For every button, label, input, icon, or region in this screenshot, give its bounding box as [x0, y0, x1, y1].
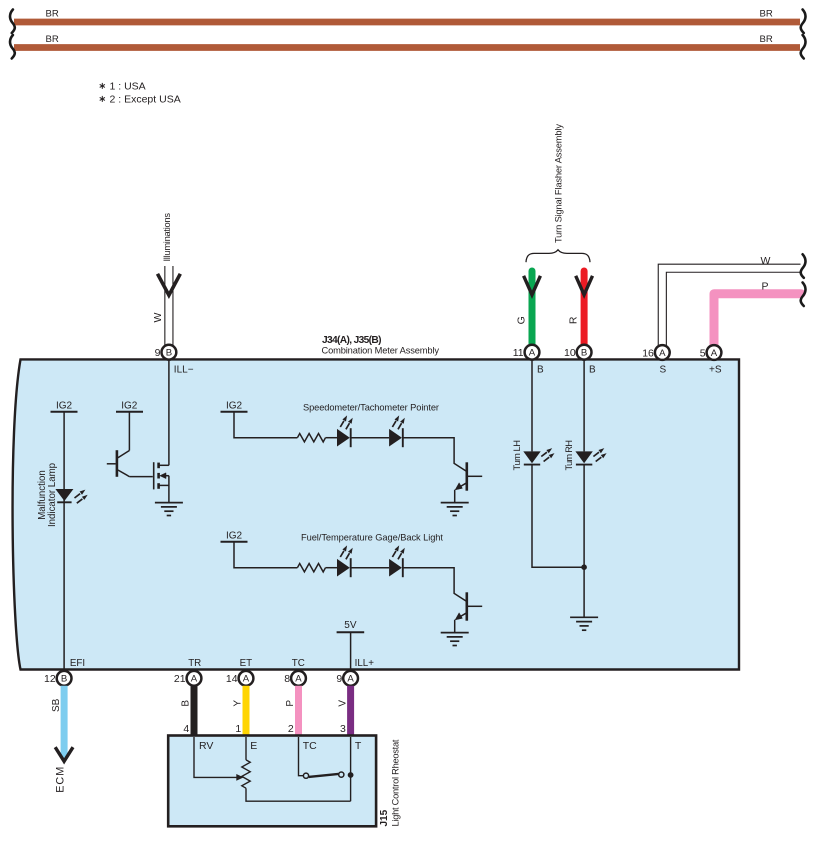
resistor R2 [297, 564, 325, 572]
wire MOSFET source to ground [168, 476, 170, 503]
ground (Q2 emitter) [441, 503, 469, 516]
wire LED4 to transistor Q3 [403, 568, 466, 601]
svg-text:Turn Signal Flasher Assembly: Turn Signal Flasher Assembly [553, 124, 563, 243]
svg-text:1: 1 [235, 723, 241, 735]
svg-text:IG2: IG2 [56, 400, 73, 411]
svg-text:16: 16 [642, 347, 654, 359]
svg-text:A: A [529, 348, 536, 359]
wire LED2 to transistor Q2 [403, 438, 466, 471]
svg-text:3: 3 [340, 723, 346, 735]
svg-text:Light Control Rheostat: Light Control Rheostat [390, 739, 400, 826]
ground (Q3 emitter) [441, 633, 469, 646]
ground (turn lamps) [570, 617, 598, 630]
wire resistor bottom to T line [246, 788, 351, 801]
brace for turn signal flasher wires [526, 250, 590, 262]
transistor Q3 [455, 592, 483, 632]
wire P (pink, +S) [714, 294, 801, 346]
switch contact left (open circle) [303, 773, 308, 778]
wire IG2 to resistor (speedo) [234, 412, 297, 438]
svg-text:Indicator Lamp: Indicator Lamp [47, 463, 58, 527]
svg-text:ILL+: ILL+ [355, 658, 375, 669]
svg-text:ET: ET [240, 658, 253, 669]
svg-text:B: B [537, 364, 544, 375]
svg-text:A: A [243, 674, 250, 685]
svg-text:A: A [191, 674, 198, 685]
resistor R3 (rheostat element) [242, 760, 250, 788]
switch contact right (open circle) [339, 772, 344, 777]
svg-text:B: B [589, 364, 596, 375]
svg-text:B: B [181, 700, 192, 707]
wire 5V to pin 9 ILL+ [350, 632, 352, 670]
svg-text:1 : USA: 1 : USA [110, 81, 146, 93]
wire resistor to LED3 [326, 567, 338, 569]
break symbol left of BR wire 2 [10, 35, 15, 59]
arrow on Illuminations wire [158, 274, 181, 295]
svg-text:Turn RH: Turn RH [564, 440, 574, 471]
wiper arrow (rheostat) [236, 774, 243, 781]
wire R (red, turn RH) [581, 271, 588, 346]
wire EFI / MIL branch [63, 412, 65, 670]
svg-text:2: 2 [288, 723, 294, 735]
svg-text:W: W [152, 312, 164, 322]
pin 21 (A) bottom [174, 671, 201, 686]
svg-text:ECM: ECM [54, 767, 66, 793]
svg-text:TC: TC [292, 658, 305, 669]
wire E to resistor R3 [245, 737, 247, 760]
arrow on red wire [576, 276, 593, 295]
MOSFET U1 [154, 462, 169, 489]
pin 5 (A) top [700, 345, 722, 360]
wire G (green, turn LH) [529, 271, 536, 346]
svg-text:Fuel/Temperature Gage/Back Lig: Fuel/Temperature Gage/Back Light [301, 533, 443, 543]
svg-text:P: P [762, 281, 769, 293]
wire SB (light blue, to ECM) [61, 686, 68, 758]
svg-text:IG2: IG2 [226, 400, 243, 411]
LED D1 (speedo) [337, 415, 353, 447]
svg-text:BR: BR [46, 9, 59, 20]
svg-text:IG2: IG2 [121, 400, 138, 411]
svg-text:8: 8 [284, 673, 290, 685]
pin 12 (B) bottom [44, 671, 71, 686]
break symbol left of BR wire 1 [10, 9, 15, 33]
wire T line vertical [350, 737, 352, 801]
wire ILL- (pin 9 to MOSFET drain) [168, 359, 170, 465]
pin 11 (A) top [513, 345, 540, 360]
LED D3 (fuel) [337, 545, 353, 577]
svg-text:E: E [250, 740, 257, 752]
power IG2 (malfunction indicator branch) [51, 400, 78, 411]
svg-text:P: P [285, 700, 296, 707]
power IG2 (fuel gage branch) [221, 530, 248, 541]
light control rheostat box J15 [168, 736, 376, 827]
svg-text:TR: TR [188, 658, 201, 669]
wire IG2 to resistor (fuel) [234, 542, 297, 568]
svg-text:A: A [659, 348, 666, 359]
arrow on green wire [524, 276, 541, 295]
svg-text:T: T [355, 740, 362, 752]
junction dot on T line [348, 772, 354, 778]
wire turn LH LED to junction [532, 465, 584, 568]
svg-text:B: B [581, 348, 587, 359]
wire resistor to LED1 [326, 437, 338, 439]
svg-text:14: 14 [226, 673, 238, 685]
svg-text:IG2: IG2 [226, 530, 243, 541]
break symbol right of P wire [801, 283, 806, 307]
svg-text:Y: Y [233, 700, 244, 707]
power IG2 (speedometer branch) [221, 400, 248, 411]
svg-text:B: B [61, 674, 67, 685]
pin 16 (A) top [642, 345, 669, 360]
svg-text:2 : Except USA: 2 : Except USA [110, 94, 181, 106]
svg-text:J15: J15 [379, 809, 390, 826]
break symbol right of BR wire 2 [801, 35, 806, 59]
svg-text:BR: BR [46, 34, 59, 45]
arrow on SB wire [55, 747, 73, 761]
note *1 USA [100, 81, 146, 93]
svg-text:+S: +S [709, 364, 722, 375]
svg-text:S: S [660, 364, 667, 375]
svg-text:11: 11 [513, 347, 524, 359]
svg-text:BR: BR [760, 9, 773, 20]
note *2 Except USA [100, 94, 181, 106]
wire P (pink, TC to rheostat TC) [295, 686, 302, 737]
svg-text:12: 12 [44, 673, 56, 685]
svg-text:J34(A), J35(B): J34(A), J35(B) [322, 335, 382, 346]
pin 9 (B) top [155, 345, 177, 360]
pin 14 (A) bottom [226, 671, 253, 686]
pin 10 (B) top [564, 345, 591, 360]
svg-text:BR: BR [760, 34, 773, 45]
junction (turn LH/RH) [581, 564, 587, 570]
pin 8 (A) bottom [284, 671, 306, 686]
wire V (violet, ILL+ to rheostat T) [347, 686, 354, 737]
svg-text:10: 10 [564, 347, 576, 359]
switch lever [309, 774, 339, 777]
transistor Q2 [455, 462, 483, 502]
svg-text:A: A [295, 674, 302, 685]
svg-text:A: A [711, 348, 718, 359]
combination meter assembly box J34/J35 [13, 359, 739, 669]
svg-text:G: G [516, 316, 528, 324]
svg-text:4: 4 [183, 723, 189, 735]
svg-text:V: V [337, 700, 348, 707]
ground (MOSFET source) [155, 503, 183, 516]
wire turn LH (pin 11 to LED) [531, 359, 533, 451]
svg-text:ILL−: ILL− [174, 364, 194, 375]
power 5V [337, 620, 365, 632]
wire BR (top, brown) [14, 19, 800, 26]
wire LED3 to LED4 [351, 567, 389, 569]
wire Y (yellow, ET to rheostat E) [243, 686, 250, 737]
LED malfunction indicator lamp [55, 489, 87, 503]
break symbol right of BR wire 1 [801, 9, 806, 33]
svg-text:SB: SB [51, 698, 62, 712]
svg-text:5: 5 [700, 347, 706, 359]
wire W (Illuminations, white) [164, 266, 173, 346]
svg-text:Turn LH: Turn LH [512, 440, 522, 471]
power IG2 (transistor Q1) [116, 400, 143, 411]
wire BR (second, brown) [14, 44, 800, 51]
LED turn RH [575, 448, 606, 465]
svg-text:B: B [166, 348, 172, 359]
LED D4 (fuel) [389, 545, 405, 577]
svg-text:A: A [347, 674, 354, 685]
svg-text:TC: TC [303, 740, 317, 752]
break symbol right of W wire [801, 254, 806, 278]
label Malfunction Indicator Lamp [37, 463, 58, 527]
transistor Q1 [107, 412, 153, 477]
wire B (black, TR to rheostat RV) [191, 686, 198, 737]
svg-text:RV: RV [199, 740, 213, 752]
svg-text:Speedometer/Tachometer Pointer: Speedometer/Tachometer Pointer [303, 403, 439, 413]
svg-text:EFI: EFI [70, 658, 85, 669]
LED turn LH [523, 448, 554, 465]
svg-text:Illuminations: Illuminations [162, 213, 172, 262]
svg-text:Combination Meter Assembly: Combination Meter Assembly [322, 346, 440, 356]
svg-text:21: 21 [174, 673, 186, 685]
wire LED1 to LED2 [351, 437, 389, 439]
resistor R1 [297, 434, 325, 442]
LED D2 (speedo) [389, 415, 405, 447]
svg-text:9: 9 [336, 673, 342, 685]
wire turn RH LED to ground [583, 465, 585, 618]
svg-text:9: 9 [155, 347, 161, 359]
wire TC into switch [299, 737, 304, 776]
wire RV to wiper arrow [194, 737, 237, 777]
wire turn RH (pin 10 to LED) [583, 359, 585, 451]
pin 9 (A) bottom [336, 671, 358, 686]
svg-text:W: W [761, 255, 771, 267]
svg-text:R: R [568, 316, 580, 324]
wire W (from pin 16, white) [662, 268, 800, 345]
svg-text:5V: 5V [344, 620, 357, 631]
